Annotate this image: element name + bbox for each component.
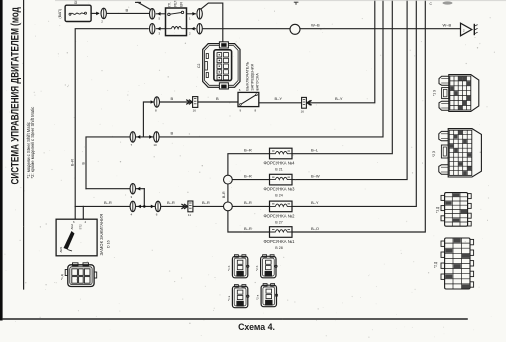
svg-text:ЗАМОК ЗАЖИГАНИЯ: ЗАМОК ЗАЖИГАНИЯ	[99, 214, 104, 256]
injector connector icon top-right	[261, 255, 278, 278]
svg-text:СИСТЕМА УПРАВЛЕНИЯ ДВИГАТЕЛЕМ: СИСТЕМА УПРАВЛЕНИЯ ДВИГАТЕЛЕМ (мод	[10, 7, 22, 184]
relay pin stubs	[156, 14, 196, 29]
svg-text:*2: кроме моделей с Steer Shif: *2: кроме моделей с Steer Shift Matic	[29, 106, 35, 178]
svg-text:ФОРСУНКА №4: ФОРСУНКА №4	[264, 161, 296, 166]
svg-text:B: B	[126, 8, 129, 13]
pin arrow into connector 2	[96, 12, 99, 16]
key lever symbol	[64, 231, 75, 250]
svg-text:B: B	[216, 96, 219, 101]
top right smudge	[443, 1, 453, 4]
arrow into row 2 oval	[137, 187, 141, 191]
wire: fuse output row y=13.4	[91, 12, 99, 14]
svg-text:B–O: B–O	[311, 226, 319, 231]
arrow into relay left top oval	[157, 12, 160, 16]
connector oval relay right top	[197, 9, 202, 19]
row B connector oval pair left	[130, 132, 135, 142]
svg-text:B–R: B–R	[202, 200, 210, 205]
svg-text:ГЛ.: ГЛ.	[168, 2, 172, 7]
wire: vertical C relay feed (row 102 to row 137)	[143, 102, 153, 137]
svg-text:B–R: B–R	[104, 200, 112, 205]
connector oval on neutral switch row	[154, 97, 159, 107]
svg-text:16: 16	[301, 109, 305, 113]
node: junction dot row3 x=144.3	[143, 205, 146, 208]
arrow into row 3 right oval	[151, 205, 154, 209]
arrow into relay right top oval	[192, 12, 195, 16]
svg-text:10: 10	[153, 143, 157, 147]
svg-text:*1 б: *1 б	[227, 265, 231, 271]
injector #4 coil	[270, 148, 293, 159]
svg-text:(ВАП): (ВАП)	[58, 9, 62, 19]
node: splice circle on ground row	[290, 24, 300, 34]
svg-text:W–B: W–B	[311, 22, 320, 27]
svg-text:B–R: B–R	[244, 148, 252, 153]
connector oval relay left bottom	[150, 24, 155, 34]
wire: ground row left section + vertical A down to ignition lock	[75, 29, 148, 220]
wire: injector 4 feed from junction circle 1	[228, 154, 270, 176]
svg-text:B–L: B–L	[311, 148, 319, 153]
wire: switch box to bus vertical x=374.8	[259, 0, 375, 103]
wire: inline connector to switch box	[198, 101, 238, 103]
wire: injector 1 feed from junction circle 2	[228, 211, 270, 232]
wire: injector 3 feed	[232, 179, 269, 181]
arrow into relay right bottom oval	[191, 27, 194, 31]
svg-text:*2 б: *2 б	[255, 265, 259, 271]
svg-text:B–R: B–R	[71, 159, 75, 166]
wire: injector 2 output to bus x=416.3	[292, 0, 416, 206]
svg-text:EFI: EFI	[180, 2, 184, 7]
ignition lock box (ЗАМОК ЗАЖИГАНИЯ)	[56, 219, 97, 256]
injector connector icon bottom-left	[232, 285, 249, 308]
svg-text:AG2: AG2	[70, 223, 74, 229]
svg-text:B: B	[171, 96, 174, 101]
svg-text:*1 Д: *1 Д	[60, 274, 64, 280]
row 3 connector oval right	[155, 201, 160, 211]
svg-text:*1 Э: *1 Э	[433, 89, 437, 96]
wire: row B y=136.9 with bus vertical x=383	[86, 0, 383, 189]
arrow into relay left bottom oval	[157, 27, 160, 31]
svg-text:ВЫКЛЮЧАТЕЛЬ: ВЫКЛЮЧАТЕЛЬ	[246, 61, 250, 90]
ignition lock connector icon D16	[65, 263, 97, 287]
svg-text:*2 в: *2 в	[256, 294, 260, 300]
wire: injector 3 output to bus x=407.1	[292, 0, 407, 180]
latches	[439, 76, 449, 85]
svg-text:W–B: W–B	[443, 22, 452, 27]
page-cut wire stub mark	[294, 2, 299, 5]
octagonal connector C2 (neutral start switch connector)	[203, 42, 240, 89]
wire: link row2-row3 at x=144.3	[143, 189, 145, 207]
svg-text:B–Y: B–Y	[311, 200, 319, 205]
wire: neutral-start switch row, oval to inline connector	[160, 101, 192, 103]
svg-text:*1 Д: *1 Д	[436, 206, 440, 213]
svg-text:B–R: B–R	[222, 191, 226, 198]
svg-text:В 28: В 28	[275, 246, 282, 250]
injector connector icon top-left	[232, 255, 249, 278]
svg-text:ST2: ST2	[78, 224, 82, 230]
svg-text:11: 11	[188, 213, 191, 217]
bottom frame line	[3, 318, 467, 320]
ECU connector block B3	[441, 193, 471, 227]
svg-text:B–W: B–W	[311, 173, 320, 178]
relay coil	[166, 27, 187, 29]
node: splice circle J1 (injector 3/4 feed)	[224, 175, 233, 184]
svg-text:B–R: B–R	[244, 200, 252, 205]
svg-text:ЗАПУСКА: ЗАПУСКА	[256, 73, 260, 91]
sidebar rule	[23, 0, 25, 289]
svg-text:B–R: B–R	[167, 200, 175, 205]
wire: row 2 y=188.7	[86, 188, 144, 190]
fusible link box (ВАП)	[65, 5, 91, 21]
wire: injector 4 output to bus x=392.3	[292, 0, 392, 154]
svg-text:В 27: В 27	[275, 220, 282, 224]
wire: injector 2 feed	[232, 205, 269, 207]
arrow into row 3 left oval	[137, 205, 141, 209]
svg-text:*2 Э: *2 Э	[432, 150, 436, 157]
arrow into row B right oval	[149, 135, 152, 139]
svg-text:*2 Д: *2 Д	[434, 261, 438, 268]
latches	[439, 131, 448, 140]
row 3 connector oval left	[130, 201, 135, 211]
inline connector 11 (male >>) row 3	[181, 201, 193, 212]
pin grid 2x5	[217, 53, 229, 80]
inline connector 16 (male >>)	[186, 97, 198, 108]
left page edge bar	[0, 0, 3, 321]
svg-text:B–Y: B–Y	[335, 96, 343, 101]
svg-text:ФОРСУНКА №1: ФОРСУНКА №1	[264, 239, 296, 244]
inline connector 16 (female <<)	[302, 97, 312, 108]
wire: vertical B2 into ignition lock pin 2	[82, 206, 84, 219]
wire: link between junction circles	[227, 184, 229, 202]
relay switch contact	[168, 13, 170, 15]
svg-text:Схема 4.: Схема 4.	[238, 322, 275, 332]
connector oval 2 (fuse output)	[101, 8, 106, 18]
svg-text:ФОРСУНКА №2: ФОРСУНКА №2	[264, 214, 296, 219]
main relay EFI box U1	[166, 8, 187, 36]
node: splice circle J2 (injector 1/2 feed)	[224, 202, 233, 211]
ECU connector block B4	[441, 238, 474, 289]
svg-text:D 16: D 16	[106, 240, 110, 248]
injector connector icon bottom-right	[261, 284, 278, 307]
injector #1 coil	[270, 227, 293, 238]
row B connector oval pair right	[154, 132, 159, 142]
wire: relay top-right diagonal to octagon connector tab	[200, 3, 222, 42]
svg-text:B–Y: B–Y	[275, 96, 283, 101]
connector oval relay left top	[150, 9, 155, 19]
svg-text:В 24: В 24	[275, 194, 282, 198]
svg-text:ФОРСУНКА №3: ФОРСУНКА №3	[264, 187, 296, 192]
svg-text:C2: C2	[197, 64, 201, 68]
row 2 connector oval	[130, 184, 135, 194]
svg-text:B: B	[171, 131, 174, 136]
svg-text:16: 16	[193, 109, 197, 113]
svg-text:В 21: В 21	[275, 167, 282, 171]
side nubs	[441, 239, 474, 287]
svg-text:ЗАПРЕЩЕНИЯ: ЗАПРЕЩЕНИЯ	[251, 63, 255, 90]
wire: row 3 y=206.4 to junction circle	[75, 205, 223, 207]
injector #2 coil	[270, 201, 293, 212]
svg-text:B–R: B–R	[244, 173, 252, 178]
ground symbol GND	[461, 23, 478, 36]
arrow into row B left oval	[137, 135, 141, 139]
arrow into oval (neutral row)	[151, 100, 154, 104]
wire: injector 1 output to bus x=425.3	[292, 0, 425, 232]
wire: diagonal rise to top bus (left of relay)	[138, 2, 151, 9]
neutral start switch box S1	[238, 92, 259, 106]
wire: ground row y=28.7 right section	[203, 28, 460, 30]
svg-text:*1 в: *1 в	[227, 295, 231, 301]
side nubs	[441, 194, 471, 226]
ECU connector block B2	[439, 129, 482, 177]
injector #3 coil	[270, 174, 293, 185]
svg-text:AM1: AM1	[59, 246, 63, 252]
ECU connector block B1	[439, 75, 479, 112]
top scan edge band	[55, 0, 506, 1]
svg-text:B–R: B–R	[244, 226, 252, 231]
connector oval relay right bottom	[197, 24, 202, 34]
